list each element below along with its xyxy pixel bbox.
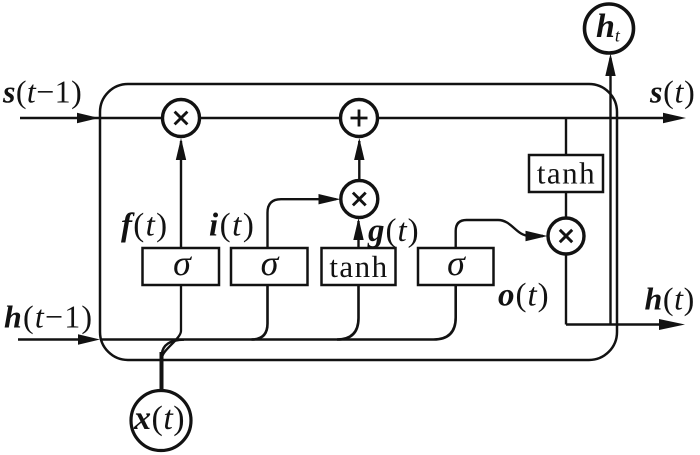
wire h/x bus along cell bottom up to o-gate [100, 286, 456, 340]
wire i-gate bottom branch [252, 286, 268, 340]
wire g-gate bottom branch [337, 286, 359, 340]
multiply node X3 [548, 218, 584, 254]
wire x(t) junction curve into bus [162, 340, 184, 355]
arrowhead o into X3 [526, 231, 548, 241]
wire h(t-1) input segment [18, 338, 88, 340]
wire o-gate to X3 [456, 220, 543, 248]
arrowhead f into multiply [176, 138, 186, 160]
svg-text:o(t): o(t) [498, 278, 550, 314]
wire X2 to add node [358, 141, 360, 180]
svg-text:g(t): g(t) [367, 213, 420, 249]
arrowhead h(t-1) entering cell [78, 334, 100, 344]
arrowhead s(t-1) entering cell [77, 113, 99, 123]
svg-text:σ: σ [173, 243, 192, 283]
multiply node X1 on s line [163, 100, 200, 137]
arrowhead h(t) output [659, 319, 685, 330]
arrowhead g into X2 [353, 218, 363, 240]
gate box g tanh [322, 248, 396, 285]
X1 times symbol [175, 112, 188, 125]
add plus symbol [351, 110, 368, 127]
arrowhead into h_t node [605, 54, 615, 77]
wire g-gate to X2 [357, 221, 359, 248]
wire f-gate bottom S-curve to x stem [163, 286, 182, 356]
wire h(t) output line [566, 323, 662, 325]
arrowhead i into X2 [319, 194, 341, 204]
wire X3 down to h(t) line [565, 254, 567, 325]
x(t) input node circle [131, 391, 191, 451]
svg-text:f(t): f(t) [121, 208, 168, 244]
wire s branch down to tanh output box [565, 118, 567, 155]
tanh output box [529, 155, 603, 192]
svg-text:h(t): h(t) [645, 281, 695, 317]
add node on s line [341, 100, 378, 137]
svg-text:s(t): s(t) [649, 74, 695, 110]
LSTM cell box [100, 84, 617, 360]
wire up to h_t node [609, 58, 611, 325]
svg-text:i(t): i(t) [209, 208, 255, 244]
X3 times symbol [560, 230, 572, 242]
gate box o sigma [418, 248, 494, 285]
X2 times symbol [353, 193, 366, 206]
svg-text:h(t−1): h(t−1) [4, 299, 93, 335]
wire f-gate to multiply node [180, 141, 182, 248]
wire s: horizontal memory line y=118 [20, 117, 678, 119]
wire tanh box to X3 [565, 192, 567, 218]
wire x(t) stem [160, 352, 164, 391]
svg-text:σ: σ [261, 243, 280, 283]
arrowhead s(t) output [663, 113, 686, 123]
wire i-gate to multiply node X2 [268, 199, 337, 248]
gate box f sigma [143, 248, 220, 285]
multiply node X2 [341, 181, 378, 218]
svg-text:s(t−1): s(t−1) [2, 74, 82, 110]
svg-text:x(t): x(t) [133, 400, 185, 437]
h_t node circle [585, 4, 634, 53]
svg-text:tanh: tanh [537, 156, 596, 191]
arrowhead X2 into add [354, 138, 364, 160]
svg-text:tanh: tanh [329, 249, 388, 284]
gate box i sigma [231, 248, 308, 285]
svg-text:σ: σ [447, 243, 466, 283]
